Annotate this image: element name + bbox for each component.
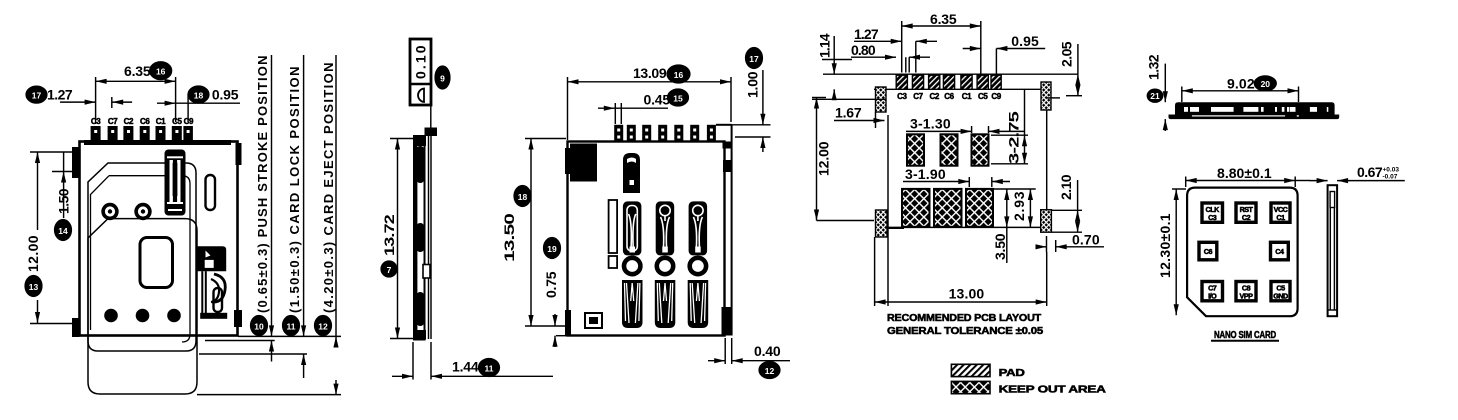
profile base flange <box>1169 115 1340 120</box>
svg-text:0.67: 0.67 <box>1357 164 1383 180</box>
svg-text:12.00: 12.00 <box>816 141 832 176</box>
svg-text:C4: C4 <box>1275 247 1284 256</box>
svg-text:+0.03: +0.03 <box>1383 167 1400 174</box>
balloon 16 (13.09) <box>667 65 690 83</box>
C-pad labels <box>897 92 1002 101</box>
dim 2.10 <box>1051 209 1082 211</box>
svg-text:0.80: 0.80 <box>851 42 876 58</box>
svg-text:12.00: 12.00 <box>25 235 41 272</box>
svg-text:(1.50±0.3) CARD LOCK POSITION: (1.50±0.3) CARD LOCK POSITION <box>287 67 302 313</box>
dim 0.70 <box>1046 236 1048 252</box>
svg-text:NANO SIM CARD: NANO SIM CARD <box>1214 329 1276 341</box>
dim 2.93 <box>993 188 1036 190</box>
card outline A (push position) <box>88 163 196 351</box>
right edge tab lower <box>234 310 242 327</box>
left top pad <box>876 87 887 112</box>
svg-text:21: 21 <box>1150 91 1160 101</box>
svg-text:13.00: 13.00 <box>949 286 985 302</box>
svg-text:0.45: 0.45 <box>644 92 671 108</box>
svg-text:C9: C9 <box>184 117 194 126</box>
nano sim card outline <box>1187 188 1298 317</box>
svg-text:3-1.30: 3-1.30 <box>910 116 951 132</box>
svg-text:1.27: 1.27 <box>854 26 879 42</box>
svg-text:11: 11 <box>287 321 296 331</box>
svg-text:2.05: 2.05 <box>1059 41 1075 67</box>
dim 13.72 <box>390 138 415 140</box>
svg-text:C2: C2 <box>124 117 134 126</box>
bottom-left block <box>585 313 602 328</box>
svg-text:0.40: 0.40 <box>754 343 781 359</box>
GD&T feature control frame <box>410 39 431 105</box>
legend KEEP OUT AREA <box>951 381 990 393</box>
profile slots (white) <box>1184 107 1328 112</box>
center card window <box>140 238 173 288</box>
right latch block <box>198 246 227 271</box>
dim 2.05 <box>1066 95 1082 97</box>
dim 1.50 left <box>63 152 65 172</box>
svg-text:0.10: 0.10 <box>413 45 429 79</box>
svg-text:7: 7 <box>387 265 392 275</box>
right pads link line <box>1046 110 1048 210</box>
dim 0.95 <box>963 48 981 50</box>
dim 1.27 <box>60 101 96 103</box>
svg-text:1.27: 1.27 <box>47 87 73 103</box>
ext line y152 <box>30 151 80 153</box>
svg-text:C7: C7 <box>108 117 118 126</box>
dim 0.45 <box>598 107 615 109</box>
dim 6.35 <box>902 25 981 27</box>
svg-text:C5: C5 <box>172 117 182 126</box>
pad top reference line <box>823 73 1078 75</box>
body outline <box>568 142 725 336</box>
svg-text:6.35: 6.35 <box>124 63 151 79</box>
dim 6.35 top <box>96 80 176 82</box>
top right tab <box>425 128 438 137</box>
legend PAD <box>951 364 990 376</box>
svg-text:C6: C6 <box>1204 247 1213 256</box>
svg-text:RECOMMENDED PCB LAYOUT: RECOMMENDED PCB LAYOUT <box>887 312 1042 324</box>
balloon 14 (1.50) <box>55 220 72 241</box>
svg-text:12: 12 <box>318 321 328 331</box>
body outline <box>80 142 238 336</box>
svg-text:18: 18 <box>518 192 528 202</box>
right bottom pad <box>1041 210 1052 233</box>
balloon 13 (12.00) <box>25 276 42 297</box>
svg-text:(4.20±0.3) CARD EJECT POSITION: (4.20±0.3) CARD EJECT POSITION <box>321 63 336 313</box>
svg-text:0.75: 0.75 <box>543 271 559 298</box>
left bottom pad <box>876 210 888 237</box>
ext body bottom right <box>556 335 568 337</box>
ext line C card lock <box>199 353 307 355</box>
right rail <box>731 125 733 336</box>
svg-text:9: 9 <box>440 73 445 83</box>
balloon 17 (1.27) <box>26 86 47 103</box>
dim 0.40 bottom right <box>724 338 726 364</box>
svg-text:1.67: 1.67 <box>835 105 862 121</box>
dim 0.75 left <box>554 314 556 326</box>
svg-text:12: 12 <box>765 366 775 376</box>
dim 3.50 <box>1006 189 1008 227</box>
switch contact <box>623 153 640 193</box>
balloon 18 (13.50) <box>514 186 531 207</box>
pad bottom reference line <box>874 88 1041 90</box>
dim 1.44 <box>412 342 414 380</box>
svg-text:C7: C7 <box>913 92 923 101</box>
dim 0.67 <box>1310 180 1328 182</box>
balloon 18 (0.95) <box>188 86 209 103</box>
svg-text:GND: GND <box>1273 292 1288 301</box>
right slot lower <box>214 288 223 312</box>
svg-text:VPP: VPP <box>1240 292 1254 301</box>
right shell lines <box>428 136 430 339</box>
svg-text:14: 14 <box>58 226 68 236</box>
left slot <box>609 200 618 253</box>
card outline B (lock position) <box>109 176 190 342</box>
svg-text:13.72: 13.72 <box>381 214 397 256</box>
bottom circles (solder points) <box>104 309 118 323</box>
svg-text:C3: C3 <box>1208 213 1217 222</box>
bottom contact blocks <box>622 280 708 328</box>
svg-text:3-2.75: 3-2.75 <box>1006 111 1022 164</box>
circles row <box>624 258 640 274</box>
leader to part top <box>430 105 432 131</box>
column dim line 1 <box>271 55 273 327</box>
svg-text:C5: C5 <box>978 92 988 101</box>
svg-text:6.35: 6.35 <box>930 11 957 27</box>
ext line D card eject <box>197 394 341 396</box>
svg-text:C2: C2 <box>929 92 939 101</box>
surface profile symbol <box>418 89 424 103</box>
mid contacts row <box>623 201 707 255</box>
dim 12.30 +-0.1 <box>1175 189 1177 315</box>
C-pads row <box>896 75 1001 89</box>
svg-text:0.95: 0.95 <box>212 87 239 103</box>
svg-text:13.09: 13.09 <box>633 65 667 81</box>
svg-text:C1: C1 <box>1276 213 1285 222</box>
dim 1.67 <box>834 120 885 122</box>
svg-text:-0.07: -0.07 <box>1383 174 1398 181</box>
balloon 16 (6.35) <box>150 62 172 80</box>
svg-text:C9: C9 <box>991 92 1001 101</box>
side notch <box>423 265 430 279</box>
balloon 17 (1.00) <box>746 48 763 69</box>
svg-text:1.32: 1.32 <box>1146 54 1162 80</box>
svg-text:16: 16 <box>156 67 166 77</box>
svg-text:C6: C6 <box>944 92 954 101</box>
pins row: 7 terminals <box>91 126 193 142</box>
dim 9.02 <box>1182 90 1299 92</box>
left-bottom pad ref line <box>817 220 875 222</box>
left-top pad centerline <box>812 98 886 100</box>
middle pads row (3-1.30) <box>907 134 924 165</box>
ext line y171.5 <box>52 171 80 173</box>
bottom pads row (3-1.90) <box>902 189 930 227</box>
svg-text:C2: C2 <box>1242 213 1251 222</box>
svg-text:2.93: 2.93 <box>1011 191 1027 221</box>
svg-text:PAD: PAD <box>999 367 1026 379</box>
svg-text:20: 20 <box>1261 79 1271 89</box>
svg-text:I/O: I/O <box>1208 292 1217 301</box>
latch hooks <box>212 274 225 302</box>
bottom pads bottom line <box>887 226 1041 228</box>
dim 1.27 <box>884 40 902 42</box>
svg-text:C1: C1 <box>156 117 166 126</box>
svg-text:C3: C3 <box>897 92 907 101</box>
svg-text:0.95: 0.95 <box>1011 33 1039 49</box>
left boundary line <box>887 115 889 306</box>
contact ladder (card detect) <box>165 150 186 216</box>
right top pad <box>1041 82 1051 110</box>
dim 13.00 <box>874 237 876 306</box>
svg-text:9.02: 9.02 <box>1227 76 1255 92</box>
card outline C (eject position) <box>88 219 197 394</box>
svg-text:11: 11 <box>485 363 494 373</box>
dim 12.00 <box>816 98 818 221</box>
left mount tab lower <box>72 318 80 337</box>
column dim line 3 <box>335 55 337 327</box>
svg-text:15: 15 <box>673 93 683 103</box>
pin labels C3 C7 C2 C6 C1 C5 C9 <box>91 117 194 126</box>
svg-text:13: 13 <box>29 282 39 292</box>
dim 1.14 <box>822 59 852 61</box>
balloon 11 (1.44) <box>479 359 500 377</box>
balloon 12 (0.40) <box>759 362 780 379</box>
column dim line 2 <box>303 55 305 327</box>
sim pads top row: CLK C3 / RST C2 / VCC C1 <box>1199 203 1290 301</box>
svg-text:C1: C1 <box>962 92 972 101</box>
top-left inner block <box>570 144 597 182</box>
svg-text:(0.65±0.3) PUSH STROKE POSITIO: (0.65±0.3) PUSH STROKE POSITION <box>255 56 270 313</box>
contact blobs <box>417 146 425 183</box>
balloon 7 (13.72) <box>381 261 397 277</box>
svg-text:GENERAL TOLERANCE ±0.05: GENERAL TOLERANCE ±0.05 <box>887 325 1043 337</box>
svg-text:C6: C6 <box>140 117 150 126</box>
svg-text:1.00: 1.00 <box>745 71 761 98</box>
svg-text:16: 16 <box>674 70 684 80</box>
svg-text:18: 18 <box>194 90 204 100</box>
svg-text:10: 10 <box>254 321 264 331</box>
svg-text:0.70: 0.70 <box>1072 232 1100 248</box>
svg-text:1.14: 1.14 <box>817 33 833 58</box>
left edge tabs <box>565 148 571 174</box>
card side view <box>1328 185 1338 316</box>
rivet circle left <box>103 205 117 219</box>
svg-text:3.50: 3.50 <box>992 233 1008 260</box>
svg-text:17: 17 <box>32 90 42 100</box>
latch pin legs <box>201 271 203 313</box>
dim 13.50 left <box>525 138 566 140</box>
ext line B push stroke <box>205 340 275 342</box>
svg-text:3-1.90: 3-1.90 <box>905 166 946 182</box>
ext line A body bottom <box>238 335 341 337</box>
svg-text:17: 17 <box>749 54 759 64</box>
balloon 15 (0.45) <box>668 89 689 106</box>
balloon 19 (0.75) <box>544 238 561 259</box>
balloon 9 <box>435 66 450 89</box>
svg-text:2.10: 2.10 <box>1058 174 1074 200</box>
right rail corner blocks <box>723 142 733 149</box>
svg-text:KEEP OUT AREA: KEEP OUT AREA <box>999 384 1107 396</box>
svg-text:19: 19 <box>547 244 557 254</box>
dim 12.00 left <box>37 152 39 230</box>
svg-text:1.50: 1.50 <box>56 188 72 214</box>
right edge tab upper <box>236 143 242 165</box>
svg-text:12.30±0.1: 12.30±0.1 <box>1157 213 1173 278</box>
top edge thick pin root strip <box>84 140 231 145</box>
card profile top: main bar <box>1175 102 1335 114</box>
svg-text:8.80±0.1: 8.80±0.1 <box>1217 165 1272 181</box>
dim 0.80 <box>882 56 896 58</box>
svg-text:1.44: 1.44 <box>452 359 479 375</box>
left mount tab upper <box>72 147 80 178</box>
dim 13.09 <box>568 81 732 83</box>
right slot upper <box>206 175 216 210</box>
rivet circle right <box>136 205 150 219</box>
dim 8.80 +-0.1 <box>1186 180 1296 182</box>
part profile plate <box>414 136 425 340</box>
dim 0.95 <box>157 102 176 104</box>
dim 1.00 right <box>716 124 771 126</box>
svg-text:13.50: 13.50 <box>501 213 517 262</box>
pins row <box>614 125 716 142</box>
